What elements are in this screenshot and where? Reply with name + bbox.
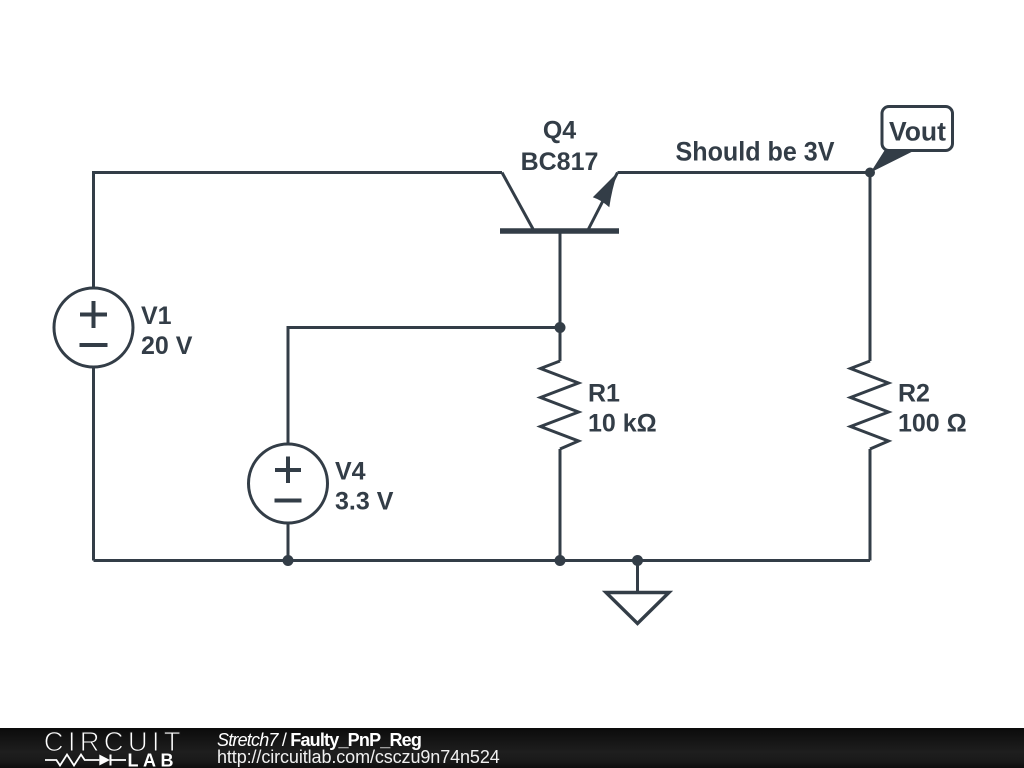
svg-text:Q4: Q4 bbox=[543, 117, 576, 145]
V1 plus mark bbox=[80, 301, 107, 328]
resistor R1 bbox=[541, 361, 579, 449]
footer url bbox=[217, 748, 500, 766]
svg-text:10 kΩ: 10 kΩ bbox=[588, 410, 657, 438]
logo diode triangle bbox=[99, 755, 110, 766]
transistor Q4 collector lead bbox=[502, 173, 533, 230]
svg-text:R1: R1 bbox=[588, 380, 620, 408]
svg-text:Vout: Vout bbox=[889, 117, 946, 147]
ground stub wire bbox=[636, 561, 639, 592]
resistor R2 bbox=[851, 361, 889, 449]
svg-text:Should be 3V: Should be 3V bbox=[676, 137, 835, 167]
junction dot Vout node bbox=[865, 168, 875, 178]
junction dot ground stub on rail bbox=[632, 555, 643, 566]
wire bottom ground rail bbox=[94, 559, 871, 562]
transistor Q4 base bar bbox=[500, 228, 619, 234]
node Vout callout tail bbox=[871, 151, 913, 173]
voltage source V1 circle bbox=[54, 288, 133, 367]
logo resistor zigzag bbox=[45, 755, 99, 766]
wire Vout node down to R2 top bbox=[869, 173, 872, 362]
footer bar bbox=[0, 728, 1024, 768]
svg-text:100 Ω: 100 Ω bbox=[898, 410, 967, 438]
node Vout callout box bbox=[882, 107, 953, 151]
wire R2 bottom to ground rail bbox=[869, 449, 872, 561]
logo diode cathode bar bbox=[110, 755, 112, 766]
logo lead wire bbox=[111, 759, 126, 761]
svg-text:20 V: 20 V bbox=[141, 332, 193, 360]
junction dot R1 on ground rail bbox=[555, 555, 566, 566]
wire Q4 base down to R1 top bbox=[559, 231, 562, 361]
junction dot V4 on ground rail bbox=[283, 555, 294, 566]
wire V4 top to base node bbox=[288, 328, 560, 445]
svg-text:3.3 V: 3.3 V bbox=[335, 488, 394, 516]
CircuitLab logo bbox=[30, 728, 230, 768]
wire V4 bottom to ground rail bbox=[287, 523, 290, 561]
transistor Q4 emitter arrowhead bbox=[593, 173, 618, 208]
svg-text:R2: R2 bbox=[898, 380, 930, 408]
ground triangle bbox=[606, 593, 669, 624]
footer title bbox=[217, 731, 421, 749]
wire R1 bottom to ground rail bbox=[559, 449, 562, 561]
svg-text:V4: V4 bbox=[335, 458, 366, 486]
V4 minus mark bbox=[275, 499, 302, 503]
svg-text:LAB: LAB bbox=[128, 750, 179, 768]
V4 plus mark bbox=[275, 457, 301, 484]
wire Q4 emitter to Vout node bbox=[618, 171, 871, 174]
junction dot base/R1 node bbox=[555, 322, 566, 333]
svg-text:BC817: BC817 bbox=[521, 148, 599, 176]
V1 minus mark bbox=[80, 343, 108, 347]
svg-text:V1: V1 bbox=[141, 302, 172, 330]
wire V1 top to Q4 collector (top-left L bend) bbox=[94, 173, 503, 289]
wire V1 bottom to ground rail bbox=[92, 367, 95, 561]
voltage source V4 circle bbox=[249, 444, 328, 523]
transistor Q4 emitter lead bbox=[588, 173, 618, 231]
